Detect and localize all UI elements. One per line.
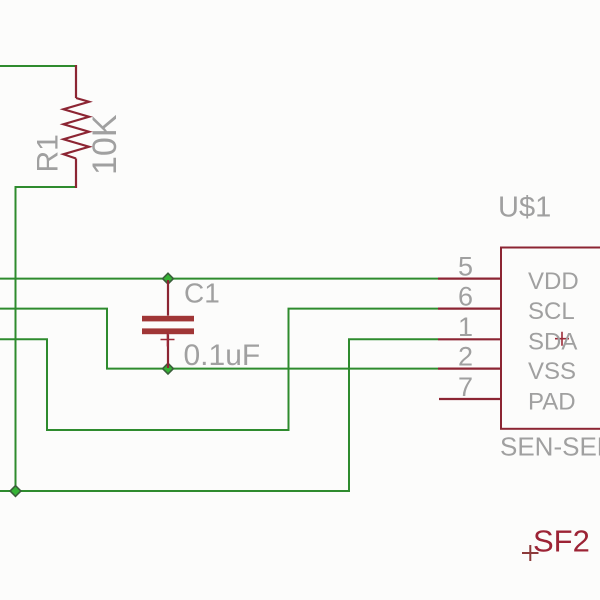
svg-text:R1: R1 [32,134,65,172]
svg-text:PAD: PAD [528,389,576,416]
svg-text:2: 2 [458,341,473,371]
svg-text:5: 5 [458,251,473,281]
svg-text:SCL: SCL [528,298,575,325]
svg-text:SDA: SDA [528,329,577,356]
svg-text:SEN-SEN: SEN-SEN [500,432,600,462]
svg-text:10K: 10K [86,114,124,175]
svg-text:1: 1 [458,312,473,342]
svg-text:VDD: VDD [528,268,579,295]
svg-text:7: 7 [458,372,473,402]
svg-text:6: 6 [458,281,473,311]
svg-text:VSS: VSS [528,358,576,385]
svg-text:SF2: SF2 [533,524,590,559]
svg-text:C1: C1 [184,278,220,309]
svg-text:U$1: U$1 [498,192,551,224]
svg-text:0.1uF: 0.1uF [184,339,261,372]
